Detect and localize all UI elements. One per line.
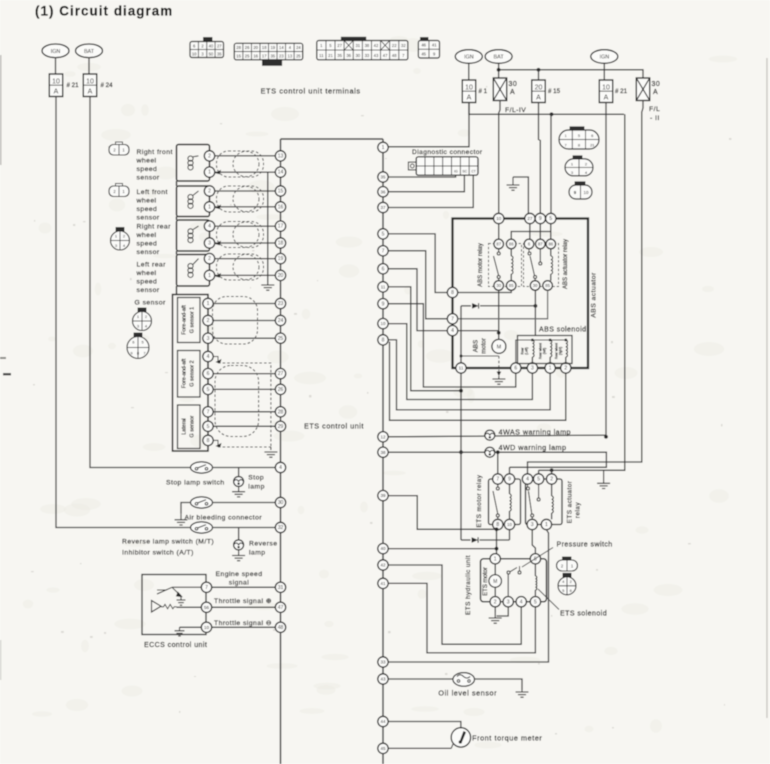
svg-text:10: 10 — [381, 321, 386, 326]
leader ETS solenoid — [538, 589, 559, 610]
svg-text:IGN: IGN — [600, 55, 610, 61]
svg-text:ECCS control unit: ECCS control unit — [144, 642, 207, 649]
svg-text:27: 27 — [217, 43, 222, 48]
svg-text:4: 4 — [520, 599, 523, 605]
front torque meter — [451, 728, 470, 747]
ECCS terminal 10 — [201, 622, 211, 632]
svg-text:CT: CT — [471, 169, 476, 173]
G sensor shield 2 — [215, 366, 259, 437]
box Fore-and-aft G sensor 1 — [178, 298, 201, 343]
ETS terminal 7 — [378, 246, 388, 256]
ETS terminal 15 — [275, 186, 285, 196]
ECCS control unit box — [142, 575, 206, 635]
wire ETS 42 to hydraulic 4 — [388, 565, 521, 644]
svg-text:5: 5 — [207, 387, 210, 393]
svg-text:A: A — [510, 89, 515, 96]
svg-text:Engine speed: Engine speed — [216, 571, 263, 578]
svg-text:Stop: Stop — [248, 475, 264, 482]
svg-text:speed: speed — [137, 241, 158, 248]
diode inside ABS actuator — [461, 305, 471, 307]
svg-text:6: 6 — [514, 366, 517, 372]
svg-text:18: 18 — [262, 45, 267, 50]
svg-text:50: 50 — [209, 51, 214, 56]
connector icon G sensor 1 — [133, 308, 152, 331]
ETS terminal 25 — [275, 333, 285, 343]
svg-text:10: 10 — [86, 79, 94, 86]
ETS relay terminal 9 — [504, 474, 514, 484]
relay2 coil — [550, 249, 552, 256]
svg-text:ETS actuator: ETS actuator — [567, 480, 574, 523]
ABS solenoid box — [518, 336, 573, 364]
wire G sensor pin 6 to ETS 27 — [213, 373, 275, 375]
svg-text:Right front: Right front — [137, 149, 173, 156]
wire IGN to fuse 21 — [55, 58, 57, 74]
wire to reverse lamp — [238, 528, 240, 541]
svg-text:(right): (right) — [559, 347, 563, 355]
svg-text:3: 3 — [207, 336, 210, 342]
ETS terminal 5 — [378, 229, 388, 239]
svg-text:4WAS warning lamp: 4WAS warning lamp — [499, 427, 572, 436]
ETS terminal 30 — [275, 497, 285, 507]
svg-text:35: 35 — [337, 53, 342, 58]
ground right of ETS relays — [597, 470, 610, 488]
svg-text:44: 44 — [380, 719, 386, 724]
svg-text:20: 20 — [278, 273, 284, 279]
svg-text:16: 16 — [253, 53, 258, 58]
connector oval 6-pin — [570, 127, 584, 132]
wire reverse switch to ETS 32 — [213, 527, 276, 529]
svg-text:35: 35 — [381, 175, 386, 180]
svg-text:2: 2 — [208, 154, 211, 160]
svg-text:36: 36 — [346, 53, 351, 58]
wire G sensor pin 2 to ETS 24 — [213, 320, 275, 322]
svg-text:11: 11 — [459, 366, 464, 371]
wire sensor Right rear pin 3 to ETS 18 — [215, 242, 276, 244]
ETS terminal 31 — [275, 582, 285, 592]
wire BAT down — [498, 63, 500, 78]
G sensor terminal 5 — [203, 384, 213, 394]
svg-text:7: 7 — [382, 248, 385, 254]
wire ETS 37 to diagnostic CT — [388, 175, 473, 207]
svg-text:9: 9 — [508, 477, 511, 483]
ETS actuator relay terminal 1 — [541, 519, 551, 529]
wire G sensor pin 5 to ETS 26 — [213, 388, 275, 390]
wire stop lamp switch to ETS 4 — [213, 467, 276, 469]
ETS terminal 12 — [378, 432, 388, 442]
svg-text:ABS solenoid: ABS solenoid — [539, 327, 586, 334]
ETS hydraulic unit box — [481, 559, 547, 602]
wire sensor Left front pin 2 to ETS 15 — [215, 190, 276, 192]
svg-text:ABS actuator: ABS actuator — [591, 272, 598, 318]
wire ABS 5 to relay 86 coils — [550, 224, 552, 239]
svg-text:31: 31 — [278, 585, 284, 591]
svg-text:A: A — [467, 95, 472, 102]
svg-text:4: 4 — [208, 224, 211, 230]
wire ETS 1 to IGN fuse 1 — [388, 103, 469, 147]
round connector ETS solenoid — [558, 573, 576, 595]
wire ABS 9 to relay 87b — [539, 224, 541, 239]
fusible link F/L-II 30A — [636, 78, 649, 101]
svg-text:38: 38 — [380, 450, 386, 455]
ETS terminal 13 — [275, 151, 285, 161]
power source BAT (right) — [485, 50, 512, 64]
relay2 contact — [528, 249, 542, 281]
svg-text:2: 2 — [208, 256, 211, 262]
ETS terminal 19 — [275, 253, 285, 263]
power source IGN #1 — [455, 50, 482, 64]
wire IGN to fuse 21 right — [603, 63, 605, 80]
svg-text:Reverse lamp switch (M/T): Reverse lamp switch (M/T) — [122, 539, 214, 546]
terminal 4 of Right rear sensor — [204, 221, 214, 231]
wire ETS 10 to ABS solenoid 3 — [388, 324, 532, 400]
wire sensor Right rear pin 4 to ETS 17 — [215, 225, 276, 227]
ETS terminal 26 — [275, 384, 285, 394]
svg-text:21: 21 — [590, 143, 595, 148]
svg-text:3: 3 — [507, 599, 510, 605]
terminal 2 of Right front sensor — [204, 151, 214, 161]
wire ECCS 56 to ETS 47 (throttle +) — [212, 606, 276, 608]
svg-text:ETS motor: ETS motor — [483, 567, 489, 596]
G sensor terminal 7 — [203, 407, 213, 417]
svg-text:2: 2 — [494, 599, 497, 605]
wire relay2 terminal stub — [551, 470, 553, 474]
ETS relay terminal 7 — [493, 474, 503, 484]
power source BAT (left) — [76, 44, 103, 58]
wire G sensor pin 1 to ETS 23 — [213, 303, 275, 305]
ABS terminal 4 — [447, 325, 457, 335]
svg-text:BAT: BAT — [84, 49, 95, 55]
wire ECCS 10 to ETS 48 (throttle -) — [212, 626, 276, 628]
ABS motor relay dashed box — [489, 244, 522, 287]
air bleeding connector — [191, 497, 213, 508]
ABS terminal 3 — [527, 363, 537, 373]
wire sensor Left rear pin 1 to ETS 20 — [215, 274, 276, 276]
wire sensor Left rear pin 2 to ETS 19 — [215, 258, 276, 260]
wire ETS 7 to ABS 7 — [388, 251, 447, 319]
svg-text:motor: motor — [481, 338, 488, 354]
svg-text:wheel: wheel — [136, 232, 157, 239]
svg-text:12: 12 — [380, 434, 386, 439]
wire to stop lamp — [238, 468, 240, 477]
ABS terminal 6 — [511, 363, 521, 373]
ETS terminal 38 — [378, 447, 388, 457]
svg-text:14: 14 — [279, 45, 284, 50]
svg-text:5: 5 — [534, 599, 537, 605]
svg-text:1: 1 — [494, 556, 497, 562]
svg-text:SC: SC — [462, 169, 467, 173]
relay1 terminal 86 — [506, 239, 516, 249]
svg-text:speed: speed — [137, 279, 158, 286]
svg-text:9: 9 — [382, 301, 385, 307]
svg-text:86: 86 — [509, 242, 514, 247]
svg-text:26: 26 — [278, 387, 284, 393]
ABS terminal 7 — [447, 314, 457, 324]
svg-text:32: 32 — [278, 525, 284, 531]
wire G sensor pin 7 to ETS 28 — [213, 411, 275, 413]
svg-text:46: 46 — [421, 43, 426, 48]
ETS terminal 8 — [378, 335, 388, 345]
relay1 coil — [510, 249, 512, 256]
svg-text:1: 1 — [545, 522, 548, 528]
svg-text:1: 1 — [208, 205, 211, 211]
wire ETS 43 to oil level sensor — [388, 678, 453, 680]
svg-text:Fore-and-aft: Fore-and-aft — [182, 305, 188, 335]
svg-text:10: 10 — [507, 522, 512, 527]
ECCS transistor — [157, 587, 201, 596]
wire sensor Right front pin 2 to ETS 13 — [215, 155, 276, 157]
fuse 20A #15 — [532, 80, 545, 103]
svg-text:43: 43 — [374, 53, 379, 58]
wire ETS 11 to ABS 11 — [388, 287, 461, 391]
svg-text:85: 85 — [545, 283, 550, 288]
svg-text:1: 1 — [549, 366, 552, 372]
svg-text:25: 25 — [296, 53, 301, 58]
svg-text:56: 56 — [204, 605, 210, 610]
connector icon rear sensors — [111, 228, 130, 251]
G sensor terminal 8 — [203, 435, 213, 445]
shield of Right rear sensor cable — [217, 222, 264, 248]
svg-text:(1) Circuit diagram: (1) Circuit diagram — [35, 4, 173, 19]
svg-text:ABS actuator relay: ABS actuator relay — [563, 239, 569, 289]
svg-text:sensor: sensor — [137, 215, 160, 222]
relay2 terminal 85 — [543, 281, 553, 291]
svg-text:5: 5 — [207, 424, 210, 430]
hydraulic terminal 4 — [516, 597, 526, 607]
svg-text:lamp: lamp — [249, 550, 266, 557]
svg-text:ETS motor relay: ETS motor relay — [476, 474, 483, 527]
connector icon right front sensor — [109, 142, 129, 155]
svg-text:Throttle signal ⊖: Throttle signal ⊖ — [214, 620, 272, 627]
ground reverse lamp — [232, 550, 245, 561]
wire IGN to fuse 1 — [468, 63, 470, 80]
svg-text:47: 47 — [278, 605, 284, 611]
svg-text:42: 42 — [380, 563, 386, 568]
wire air bleeding connector to ETS 30 — [213, 502, 276, 504]
ETS terminal 39 — [378, 490, 388, 500]
wire sensor Right front pin 1 to ETS 14 — [215, 171, 276, 173]
svg-text:30: 30 — [496, 283, 501, 288]
svg-text:35: 35 — [270, 53, 275, 58]
svg-text:10: 10 — [496, 216, 502, 221]
svg-text:- II: - II — [650, 115, 660, 122]
ABS actuator relay dashed box — [524, 244, 559, 287]
wire ETS 12 to 4WAS warning lamp — [388, 435, 606, 437]
4WAS warning lamp — [485, 430, 495, 440]
svg-text:Reverse: Reverse — [249, 541, 277, 548]
ETS actuator relay terminal 3 — [527, 519, 537, 529]
svg-text:24: 24 — [296, 45, 301, 50]
G sensor drain wire (dashed) — [213, 357, 218, 364]
wire IGN bus right branch down to ETS relay feeds — [539, 114, 625, 470]
svg-text:87: 87 — [496, 242, 501, 247]
svg-text:4: 4 — [207, 354, 210, 360]
svg-text:F/L-IV: F/L-IV — [505, 107, 526, 114]
svg-text:Left rear: Left rear — [137, 262, 167, 269]
svg-text:Throttle signal ⊕: Throttle signal ⊕ — [214, 598, 272, 605]
wire ETS 35 to diagnostic IG — [388, 175, 455, 177]
svg-text:(Left): (Left) — [525, 347, 529, 354]
ABS terminal 1 — [545, 363, 555, 373]
ETS terminal 35 — [378, 172, 388, 182]
ETS terminal 32 — [275, 522, 285, 532]
ETS terminal 23 — [275, 298, 285, 308]
junction BAT bus — [497, 68, 501, 72]
ground stop lamp — [232, 487, 245, 497]
svg-text:11: 11 — [319, 53, 324, 58]
G sensor terminal 2 — [203, 315, 213, 325]
svg-text:2: 2 — [208, 189, 211, 195]
wire ABS 4 to motor line — [458, 330, 499, 332]
ETS terminal 10 — [378, 318, 388, 328]
junction IGN bus — [550, 112, 554, 116]
ABS actuator box — [453, 219, 589, 369]
power source IGN #21 — [591, 50, 618, 64]
connector oval 4-pin — [573, 156, 582, 160]
svg-text:1: 1 — [207, 301, 210, 307]
junction 4WAS feed — [604, 435, 608, 439]
wire relay2-1 down to ETS 33 — [388, 530, 548, 662]
box Lateral G sensor — [178, 405, 201, 449]
wire ETS 36 to diagnostic SC — [388, 175, 464, 192]
ETS terminals connector B — [234, 43, 302, 60]
wire ETS 44 to torque meter — [388, 722, 461, 728]
wire bus to fuse 15 — [538, 70, 540, 80]
svg-text:Inhibitor switch (A/T): Inhibitor switch (A/T) — [122, 550, 194, 557]
ETS motor relay coil — [509, 484, 511, 494]
Right rear wheel speed sensor box — [177, 220, 210, 251]
svg-text:Oil level sensor: Oil level sensor — [438, 689, 497, 698]
svg-text:IG: IG — [454, 169, 458, 173]
scan artifact marks — [3, 373, 11, 375]
wire relay2-3 to hydraulic 5 top — [532, 530, 535, 554]
ETS motor in hydraulic unit — [494, 564, 496, 575]
ETS terminal 9 — [378, 299, 388, 309]
svg-text:10: 10 — [602, 85, 610, 92]
svg-text:1: 1 — [208, 273, 211, 279]
svg-text:40: 40 — [209, 43, 214, 48]
ETS solenoid connector round — [563, 574, 571, 578]
ETS terminal 24 — [275, 315, 285, 325]
wire ETS 39 to relay 8 — [388, 496, 496, 530]
relay1 terminal 30 — [494, 281, 504, 291]
wire main ETS column — [382, 139, 384, 764]
G sensor terminal 1 — [203, 298, 213, 308]
junction bus to fuse 15 — [537, 68, 541, 72]
svg-text:47: 47 — [383, 53, 388, 58]
svg-text:1: 1 — [208, 170, 211, 176]
svg-text:sensor: sensor — [137, 287, 160, 294]
shield of Left rear sensor cable — [217, 254, 264, 280]
relay1 terminal 85 — [506, 281, 516, 291]
svg-text:30: 30 — [355, 53, 360, 58]
ground G sensor shields — [264, 447, 277, 457]
junction relay 2 feed — [550, 468, 554, 472]
wire oil level sensor to ground — [475, 679, 523, 690]
svg-text:3: 3 — [531, 366, 534, 372]
wire ABS 8 to relay1 85 — [458, 290, 512, 292]
ETS solenoid connector 2pin — [563, 557, 572, 561]
svg-text:7: 7 — [207, 409, 210, 415]
svg-text:10: 10 — [584, 190, 589, 195]
ETS terminal 1 — [378, 142, 388, 152]
ABS terminal 10 — [494, 213, 504, 223]
svg-text:A: A — [604, 95, 609, 102]
svg-text:8: 8 — [451, 290, 454, 296]
ETS terminal 45 — [378, 743, 388, 753]
wire ETS 5 to ABS 8 — [388, 234, 447, 293]
ABS terminal 8 — [447, 287, 457, 297]
solenoid common bus — [516, 340, 566, 363]
wire ETS 38 to 4WD warning lamp — [388, 452, 606, 467]
fuse 10A #24 (left) — [83, 74, 96, 97]
ETS solenoid coil — [534, 564, 536, 576]
svg-text:wheel: wheel — [136, 158, 157, 165]
svg-text:3: 3 — [531, 522, 534, 528]
solenoid coil 2 — [550, 340, 552, 357]
svg-text:5: 5 — [537, 477, 540, 483]
ETS actuator relay contact — [527, 484, 541, 519]
Right front wheel speed sensor box — [177, 145, 210, 182]
svg-text:30: 30 — [533, 283, 538, 288]
ground ABS terminal 27 branch — [513, 177, 528, 214]
ETS terminal 40 — [378, 543, 388, 553]
svg-text:7: 7 — [451, 316, 454, 322]
svg-text:15: 15 — [278, 189, 284, 195]
hydraulic terminal 3 — [503, 597, 513, 607]
Left front wheel speed sensor box — [177, 186, 210, 217]
wire relay 8 down to hydraulic 1 — [496, 529, 498, 553]
wire ABS 11 up to diode line — [460, 306, 462, 363]
svg-text:M: M — [497, 345, 502, 351]
diagnostic connector body — [408, 162, 416, 170]
ground wheel sensor shields — [261, 282, 274, 290]
svg-text:G sensor: G sensor — [190, 415, 196, 437]
G sensor terminal 5 — [203, 421, 213, 431]
ETS relay terminal 8 — [493, 519, 503, 529]
svg-text:26: 26 — [245, 45, 250, 50]
wire ABS 11 to motor bottom — [461, 355, 499, 357]
svg-text:4: 4 — [526, 477, 529, 483]
svg-text:10: 10 — [465, 85, 473, 92]
svg-text:45: 45 — [380, 746, 386, 751]
terminal 3 of Right rear sensor — [204, 238, 214, 248]
svg-text:(left): (left) — [543, 348, 547, 354]
wire ABS 11 down to ETS relay region — [460, 373, 462, 540]
svg-text:30: 30 — [652, 81, 661, 88]
relay2 terminal 86 — [546, 239, 556, 249]
fusible link F/L-IV 30A — [493, 78, 506, 101]
svg-text:20: 20 — [253, 45, 258, 50]
wire shield drain bus (wheel sensors) — [267, 172, 269, 282]
svg-text:20: 20 — [535, 85, 543, 92]
wire relay5 terminal stub — [538, 470, 540, 474]
svg-text:Front torque meter: Front torque meter — [472, 733, 542, 742]
ETS terminal 14 — [275, 167, 285, 177]
relay2 terminal 30 — [530, 281, 540, 291]
svg-text:40: 40 — [380, 546, 386, 551]
svg-text:48: 48 — [392, 53, 397, 58]
svg-text:Pressure switch: Pressure switch — [557, 542, 613, 549]
ETS actuator relay box — [526, 479, 563, 525]
ETS actuator relay terminal 4 — [522, 474, 532, 484]
ground air bleeding — [175, 514, 188, 525]
ECCS terminal 7 — [201, 582, 211, 592]
svg-text:23: 23 — [279, 53, 284, 58]
wire BAT to fuse 24 — [88, 58, 90, 74]
svg-text:# 21: # 21 — [67, 82, 80, 89]
ETS terminal 48 — [275, 622, 285, 632]
shield of Left front sensor cable — [217, 186, 264, 212]
